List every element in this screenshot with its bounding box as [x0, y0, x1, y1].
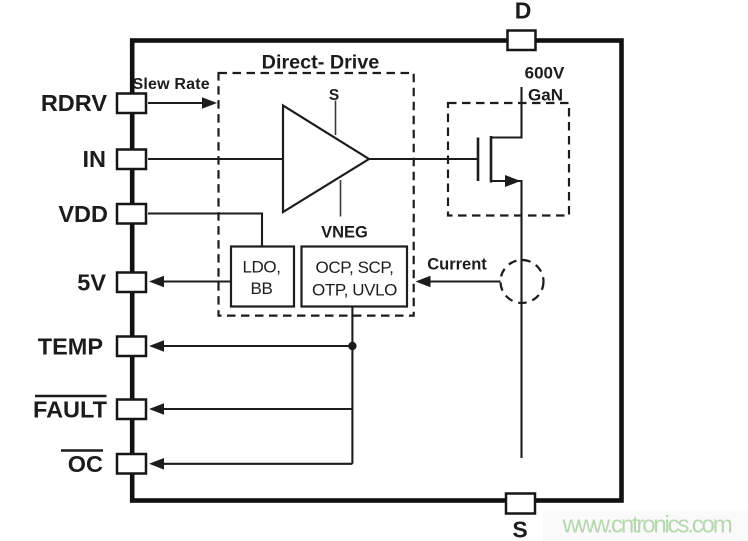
- svg-text:Direct- Drive: Direct- Drive: [262, 52, 380, 74]
- svg-text:Current: Current: [427, 255, 487, 273]
- svg-text:600V: 600V: [525, 63, 565, 82]
- svg-text:D: D: [515, 0, 532, 24]
- svg-text:OC: OC: [68, 451, 103, 477]
- svg-text:TEMP: TEMP: [38, 333, 103, 359]
- svg-text:IN: IN: [83, 146, 107, 172]
- svg-text:5V: 5V: [77, 269, 106, 295]
- svg-text:VDD: VDD: [58, 201, 108, 227]
- svg-text:VNEG: VNEG: [321, 224, 368, 242]
- svg-text:S: S: [512, 517, 527, 541]
- svg-text:www.cntronics.com: www.cntronics.com: [562, 512, 732, 539]
- svg-text:Slew Rate: Slew Rate: [133, 76, 210, 93]
- svg-text:GaN: GaN: [528, 86, 563, 105]
- svg-text:FAULT: FAULT: [33, 396, 108, 422]
- svg-text:OCP, SCP,: OCP, SCP,: [316, 258, 394, 277]
- svg-text:OTP, UVLO: OTP, UVLO: [312, 281, 397, 300]
- svg-text:BB: BB: [251, 279, 273, 298]
- svg-text:S: S: [329, 87, 339, 104]
- svg-text:LDO,: LDO,: [242, 258, 280, 277]
- svg-text:RDRV: RDRV: [41, 90, 107, 116]
